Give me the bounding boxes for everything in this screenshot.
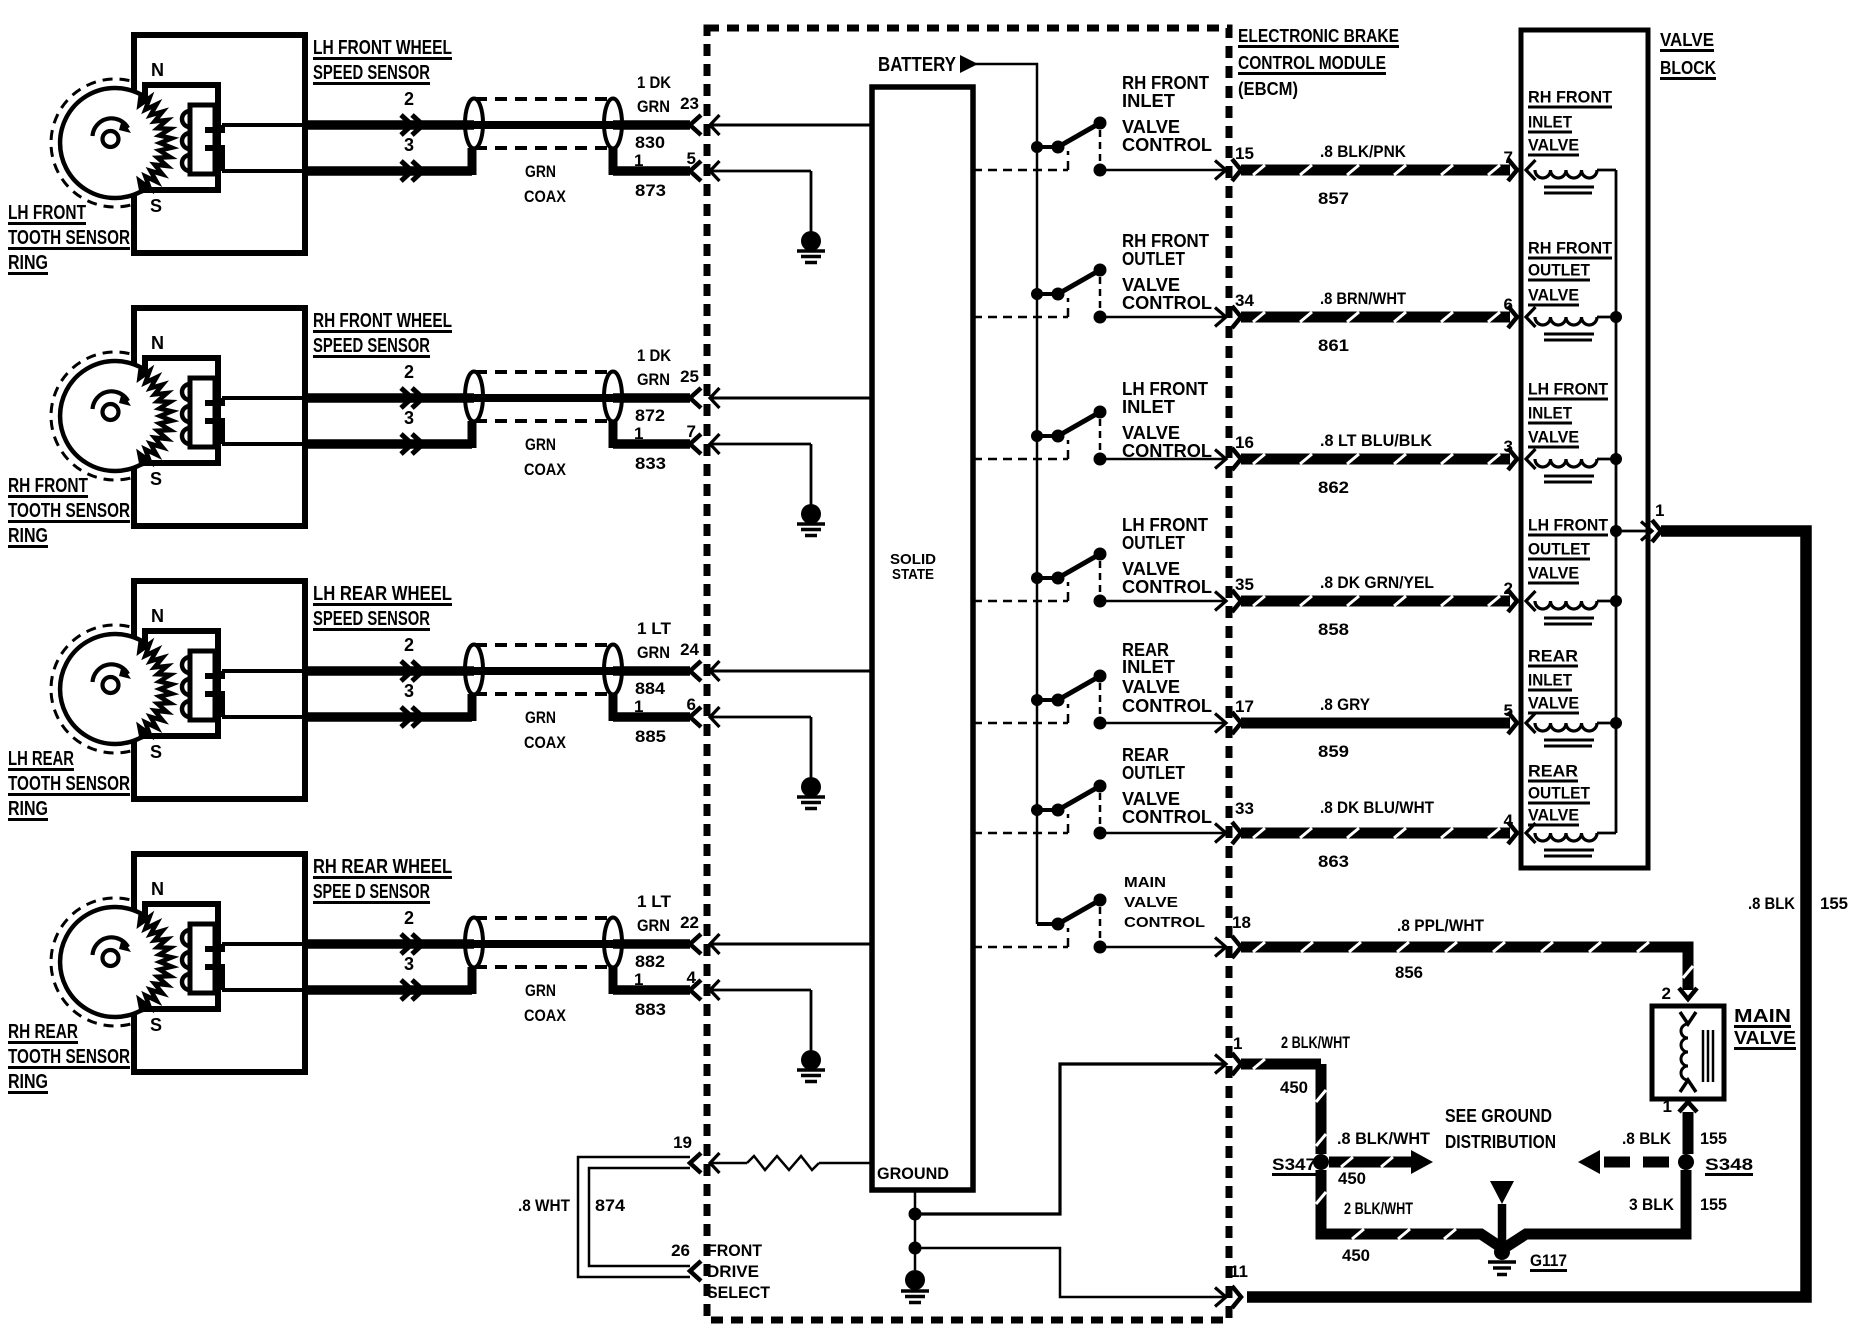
svg-text:VALVE: VALVE [1122,559,1180,579]
sensor title label [313,583,452,631]
svg-text:22: 22 [680,913,699,932]
switch: LH FRONT INLET VALVE CONTROL [1031,406,1107,466]
svg-text:LH FRONT: LH FRONT [8,202,86,224]
svg-text:CONTROL: CONTROL [1122,807,1212,827]
valve label LH FRONT OUTLET VALVE VALVE [1528,516,1609,585]
valve coil: RH FRONT OUTLET VALVE VALVE (pin 6) [1526,307,1616,340]
connector valve pin 7 [1508,159,1517,181]
svg-text:S: S [150,196,162,216]
connector pin 22 at EBCM [690,934,720,954]
coax shield [465,372,622,422]
valve coil: LH FRONT INLET VALVE VALVE (pin 3) [1526,449,1616,482]
ground symbol (row 3) [797,777,825,809]
pin label 2 (main valve) [1662,984,1671,1003]
sensor title label [313,37,452,85]
valve block label [1660,30,1716,80]
circuit label 856 [1395,963,1423,982]
bus junction at y=459 [1610,453,1622,465]
svg-text:OUTLET: OUTLET [1528,261,1591,280]
svg-text:26: 26 [671,1241,690,1260]
svg-text:VALVE: VALVE [1122,117,1180,137]
wire: sensor RH REAR WHEEL signal (882) [222,942,690,946]
svg-text:VALVE: VALVE [1122,275,1180,295]
connector pin 7 at EBCM [690,434,720,454]
battery label and feed wire [878,54,1037,924]
svg-text:CONTROL: CONTROL [1124,914,1205,931]
wire labels 2 BLK/WHT 450 [1280,1033,1413,1265]
svg-text:2 BLK/WHT: 2 BLK/WHT [1344,1199,1413,1218]
junction node A [909,1208,922,1221]
svg-text:17: 17 [1235,697,1254,716]
dashed control line from solid state (row 1) [973,151,1068,170]
bus junction at y=723 [1610,717,1622,729]
pin label 26 [671,1241,690,1260]
valve pin label 5 [1504,701,1513,720]
svg-text:.8 LT BLU/BLK: .8 LT BLU/BLK [1320,431,1433,450]
svg-text:RING: RING [8,525,48,547]
tooth ring label [8,748,130,821]
svg-text:DRIVE: DRIVE [707,1262,759,1281]
valve label RH FRONT OUTLET VALVE VALVE [1528,239,1613,307]
main valve label [1734,1006,1796,1050]
svg-text:LH REAR: LH REAR [8,748,74,770]
svg-text:N: N [151,333,164,353]
svg-text:4: 4 [687,968,697,987]
svg-text:450: 450 [1280,1078,1308,1097]
wire .8 BLK 155 (main valve to S348) [1683,1112,1694,1154]
svg-text:COAX: COAX [524,733,567,752]
wire label .8 WHT 874 [518,1196,626,1215]
svg-text:LH FRONT: LH FRONT [1122,515,1208,535]
ground symbol below solid state [901,1270,929,1303]
svg-text:.8 BLK/PNK: .8 BLK/PNK [1320,142,1407,161]
svg-text:873: 873 [635,181,666,200]
svg-text:2: 2 [1662,984,1671,1003]
svg-text:863: 863 [1318,852,1349,871]
svg-text:874: 874 [595,1196,626,1215]
wire: sensor LH REAR WHEEL return (885) [222,694,690,721]
wire terminal numbers 2 / 3 [404,362,414,428]
svg-text:3: 3 [404,954,414,974]
svg-text:RH FRONT: RH FRONT [1122,231,1209,251]
switch: RH FRONT OUTLET VALVE CONTROL [1031,264,1107,324]
svg-text:872: 872 [635,406,665,425]
connector pin 34 [1215,306,1241,328]
connector pin 6 at EBCM [690,707,720,727]
pin label 1 [1233,1034,1242,1053]
wire label .8 BLK/WHT 450 [1337,1129,1431,1188]
rh rear wheel speed sensor assembly [51,854,305,1072]
svg-text:VALVE: VALVE [1122,789,1180,809]
svg-text:BLOCK: BLOCK [1660,58,1716,78]
inline connector pair on return wire [401,161,423,181]
EBCM pin number labels [680,640,699,714]
svg-text:CONTROL: CONTROL [1122,696,1212,716]
switch: RH FRONT INLET VALVE CONTROL [1031,117,1107,177]
switch: MAIN VALVE CONTROL [1037,894,1107,954]
svg-text:VALVE: VALVE [1660,30,1714,50]
wire label .8 BRN/WHT [1320,289,1407,308]
dashed control line from solid state (row 3) [973,440,1068,459]
lh front wheel speed sensor assembly [51,35,305,253]
svg-text:GRN: GRN [637,370,670,389]
dashed control line from solid state (row 2) [973,298,1068,317]
wire color / circuit labels [524,619,672,752]
pin label 18 [1232,913,1251,932]
wire .8 BLK/PNK 857 [1241,165,1510,175]
inline connector pair on return wire [401,707,423,727]
bus junction at y=317 [1610,311,1622,323]
EBCM pin number labels [680,367,699,441]
coax shield [465,645,622,695]
svg-text:CONTROL: CONTROL [1122,135,1212,155]
svg-text:G117: G117 [1530,1251,1567,1270]
valve coil: RH FRONT INLET VALVE VALVE (pin 7) [1526,160,1616,193]
switch: REAR INLET VALVE CONTROL [1031,670,1107,730]
tooth ring label [8,475,130,548]
svg-text:CONTROL: CONTROL [1122,577,1212,597]
wire 3 BLK 155 (S348 to ground) [1506,1170,1686,1247]
svg-text:1 DK: 1 DK [637,346,672,365]
svg-text:OUTLET: OUTLET [1122,763,1185,783]
svg-text:34: 34 [1235,291,1254,310]
circuit label 859 [1318,742,1349,761]
wire label .8 DK BLU/WHT [1320,798,1435,817]
wire color / circuit labels [524,73,672,206]
control label LH FRONT OUTLET VALVE CONTROL [1122,515,1212,597]
svg-text:BATTERY: BATTERY [878,54,957,76]
svg-text:155: 155 [1820,894,1848,913]
wire label 3 BLK 155 [1629,1195,1727,1214]
wire label .8 BLK/PNK [1320,142,1407,161]
main valve box [1652,1006,1724,1099]
svg-text:RH REAR WHEEL: RH REAR WHEEL [313,856,452,878]
svg-text:1 LT: 1 LT [637,619,672,638]
svg-text:LH REAR WHEEL: LH REAR WHEEL [313,583,452,605]
svg-text:MAIN: MAIN [1124,874,1166,891]
connector pin 17 [1215,712,1241,734]
svg-text:REAR: REAR [1528,647,1578,666]
svg-text:GRN: GRN [637,643,670,662]
control label RH FRONT OUTLET VALVE CONTROL [1122,231,1212,313]
svg-text:25: 25 [680,367,699,386]
label S347 [1272,1155,1316,1176]
svg-text:3: 3 [404,408,414,428]
svg-text:2: 2 [404,635,414,655]
svg-text:OUTLET: OUTLET [1122,533,1185,553]
svg-text:SPEE D SENSOR: SPEE D SENSOR [313,881,430,903]
svg-text:RING: RING [8,252,48,274]
connector pin 15 [1215,159,1241,181]
valve block internal bus wire [1615,170,1618,833]
svg-text:CONTROL: CONTROL [1122,441,1212,461]
svg-text:N: N [151,60,164,80]
svg-text:1: 1 [1655,501,1664,520]
svg-text:.8 GRY: .8 GRY [1320,695,1371,714]
svg-text:884: 884 [635,679,666,698]
svg-text:RH FRONT: RH FRONT [8,475,88,497]
svg-text:RING: RING [8,798,48,820]
pin label 33 [1235,799,1254,818]
pin label 16 [1235,433,1254,452]
wire color / circuit labels [524,892,672,1025]
svg-text:REAR: REAR [1122,745,1169,765]
svg-text:VALVE: VALVE [1124,894,1178,911]
lh rear wheel speed sensor assembly [51,581,305,799]
svg-text:MAIN: MAIN [1734,1006,1791,1026]
svg-text:VALVE: VALVE [1122,677,1180,697]
sensor title label [313,310,452,358]
valve pin label 4 [1504,811,1514,830]
svg-text:862: 862 [1318,478,1349,497]
svg-text:857: 857 [1318,189,1349,208]
EBCM title label [1238,26,1399,99]
wire label .8 BLK 155 [1622,1129,1727,1148]
label SEE GROUND DISTRIBUTION [1445,1106,1556,1152]
connector pin 4 at EBCM [690,980,720,1000]
svg-text:VALVE: VALVE [1528,806,1579,825]
inline connector pair on return wire [401,434,423,454]
svg-text:VALVE: VALVE [1528,286,1579,305]
svg-text:RH FRONT: RH FRONT [1122,73,1209,93]
svg-text:GRN: GRN [637,916,670,935]
svg-text:830: 830 [635,133,665,152]
dashed wire to S348 with arrow [1578,1150,1678,1174]
connector valve block pin 1 [1641,520,1661,542]
svg-text:.8 BLK/WHT: .8 BLK/WHT [1337,1129,1431,1148]
svg-text:CONTROL: CONTROL [1122,293,1212,313]
wire .8 GRY 859 [1241,718,1510,729]
svg-text:OUTLET: OUTLET [1528,784,1591,803]
dashed control line from solid state (row 4) [973,582,1068,601]
wire terminal numbers 2 / 3 [404,908,414,974]
svg-text:STATE: STATE [892,566,934,583]
svg-text:LH FRONT: LH FRONT [1122,379,1208,399]
coax shield [465,99,622,149]
ground symbol (row 2) [797,504,825,536]
EBCM pin number labels [680,94,699,168]
svg-text:VALVE: VALVE [1734,1028,1796,1048]
wire 874 jumper (pin 19 to 26) [578,1157,690,1277]
svg-text:5: 5 [687,149,696,168]
bus junction at y=601 [1610,595,1622,607]
wire: sensor LH FRONT WHEEL return (873) [222,148,690,175]
wire: switch output to pin 17 [1100,722,1226,725]
connector valve pin 3 [1508,448,1517,470]
svg-text:SPEED SENSOR: SPEED SENSOR [313,62,430,84]
svg-text:1: 1 [1663,1097,1672,1116]
valve pin label 6 [1504,295,1513,314]
svg-text:N: N [151,879,164,899]
valve label LH FRONT INLET VALVE VALVE [1528,380,1609,449]
circuit label 861 [1318,336,1349,355]
svg-text:GROUND: GROUND [877,1164,949,1183]
svg-text:SPEED SENSOR: SPEED SENSOR [313,608,430,630]
svg-text:24: 24 [680,640,699,659]
wire .8 BRN/WHT 861 [1241,312,1510,322]
svg-text:5: 5 [1504,701,1513,720]
svg-text:1 DK: 1 DK [637,73,672,92]
wire+ground: sensor shield return (row 1) [710,171,811,232]
wire+ground: sensor shield return (row 2) [710,444,811,505]
svg-text:450: 450 [1342,1246,1370,1265]
circuit label 858 [1318,620,1349,639]
connector pin 24 at EBCM [690,661,720,681]
wire label .8 LT BLU/BLK [1320,431,1433,450]
dashed control line from solid state (row 6) [973,814,1068,833]
svg-text:VALVE: VALVE [1528,694,1579,713]
connector valve pin 5 [1508,712,1517,734]
wire: sensor RH REAR WHEEL return (883) [222,967,690,994]
pin label 17 [1235,697,1254,716]
switch: REAR OUTLET VALVE CONTROL [1031,780,1107,840]
svg-text:SPEED SENSOR: SPEED SENSOR [313,335,430,357]
svg-text:S: S [150,742,162,762]
svg-text:2 BLK/WHT: 2 BLK/WHT [1281,1033,1350,1052]
wire terminal numbers 2 / 3 [404,635,414,701]
svg-text:856: 856 [1395,963,1423,982]
valve coil: LH FRONT OUTLET VALVE VALVE (pin 2) [1526,591,1616,624]
wire: sensor input to solid state (row 2) [710,397,872,400]
connector pin 16 [1215,448,1241,470]
connector pin 25 at EBCM [690,388,720,408]
svg-text:RH REAR: RH REAR [8,1021,78,1043]
valve coil: REAR OUTLET VALVE VALVE (pin 4) [1526,823,1616,856]
svg-text:23: 23 [680,94,699,113]
dashed control line from solid state (main valve) [973,928,1068,947]
svg-text:ELECTRONIC BRAKE: ELECTRONIC BRAKE [1238,26,1399,46]
connector pin 11 [1215,1286,1241,1308]
connector valve pin 4 [1508,822,1517,844]
svg-text:.8 DK BLU/WHT: .8 DK BLU/WHT [1320,798,1435,817]
wire label .8 PPL/WHT [1397,916,1485,935]
pin label 19 [673,1133,692,1152]
svg-text:6: 6 [687,695,696,714]
svg-text:7: 7 [1504,148,1513,167]
connector main valve pin 2 [1679,988,1697,999]
svg-text:GRN: GRN [525,162,556,181]
switch: LH FRONT OUTLET VALVE CONTROL [1031,548,1107,608]
wire+ground: sensor shield return (row 3) [710,717,811,778]
svg-text:FRONT: FRONT [707,1241,763,1260]
wire .8 BLK 155 right side [1247,531,1806,1297]
svg-text:VALVE: VALVE [1528,564,1579,583]
svg-text:18: 18 [1232,913,1251,932]
control label REAR OUTLET VALVE CONTROL [1122,745,1212,827]
svg-text:35: 35 [1235,575,1254,594]
dashed control line from solid state (row 5) [973,704,1068,723]
tooth ring label [8,202,130,275]
valve label REAR OUTLET VALVE VALVE [1528,762,1591,827]
svg-text:2: 2 [404,362,414,382]
wire: sensor RH FRONT WHEEL signal (872) [222,396,690,400]
svg-text:RH FRONT WHEEL: RH FRONT WHEEL [313,310,452,332]
valve label REAR INLET VALVE VALVE [1528,647,1579,715]
wire: valve block pin 1 output [1616,530,1648,533]
EBCM pin number labels [680,913,699,987]
wire: sensor LH FRONT WHEEL signal (830) [222,123,690,127]
connector pin 35 [1215,590,1241,612]
wire label .8 DK GRN/YEL [1320,573,1434,592]
svg-text:.8 PPL/WHT: .8 PPL/WHT [1397,916,1485,935]
svg-text:883: 883 [635,1000,666,1019]
wire .8 BLK/WHT 450 from S347 with arrow [1329,1150,1433,1174]
connector pin 23 at EBCM [690,115,720,135]
svg-text:REAR: REAR [1528,762,1578,781]
wire: sensor LH REAR WHEEL signal (884) [222,669,690,673]
svg-text:RING: RING [8,1071,48,1093]
control label LH FRONT INLET VALVE CONTROL [1122,379,1212,461]
svg-text:3: 3 [404,681,414,701]
svg-text:S: S [150,469,162,489]
svg-text:LH FRONT: LH FRONT [1528,516,1609,535]
svg-text:.8 BRN/WHT: .8 BRN/WHT [1320,289,1407,308]
wire: sensor input to solid state (row 1) [710,124,872,127]
svg-text:6: 6 [1504,295,1513,314]
svg-text:1: 1 [634,697,643,716]
inline connector pair on signal wire [401,115,423,135]
svg-text:GRN: GRN [525,435,556,454]
circuit label 857 [1318,189,1349,208]
svg-text:SELECT: SELECT [707,1283,771,1302]
valve pin label 3 [1504,437,1513,456]
wire: switch output to pin 15 [1100,169,1226,172]
pin label 34 [1235,291,1254,310]
sensor title label [313,856,452,904]
pin label 35 [1235,575,1254,594]
circuit label 863 [1318,852,1349,871]
svg-text:TOOTH SENSOR: TOOTH SENSOR [8,1046,130,1068]
connector valve pin 6 [1508,306,1517,328]
connector pin 5 at EBCM [690,161,720,181]
wire: switch output to pin 33 [1100,832,1226,835]
splice S348 [1678,1154,1694,1170]
svg-text:859: 859 [1318,742,1349,761]
control label RH FRONT INLET VALVE CONTROL [1122,73,1212,155]
svg-text:33: 33 [1235,799,1254,818]
svg-text:S347: S347 [1272,1155,1316,1174]
inline connector pair on signal wire [401,934,423,954]
wire: node B to pin 11 [915,1248,1226,1297]
connector pin 18 [1215,936,1241,958]
wire .8 DK GRN/YEL 858 [1241,596,1510,606]
pin label 15 [1235,144,1254,163]
svg-text:16: 16 [1235,433,1254,452]
svg-text:COAX: COAX [524,460,567,479]
svg-text:S348: S348 [1705,1155,1753,1174]
svg-text:3 BLK: 3 BLK [1629,1195,1675,1214]
rh front wheel speed sensor assembly [51,308,305,526]
svg-text:450: 450 [1338,1169,1366,1188]
svg-text:TOOTH SENSOR: TOOTH SENSOR [8,773,130,795]
svg-text:SEE GROUND: SEE GROUND [1445,1106,1552,1126]
inline connector pair on signal wire [401,661,423,681]
svg-text:LH FRONT: LH FRONT [1528,380,1609,399]
wire label .8 BLK 155 (right) [1748,894,1848,913]
svg-text:GRN: GRN [525,708,556,727]
svg-text:(EBCM): (EBCM) [1238,79,1298,99]
svg-text:VALVE: VALVE [1528,428,1579,447]
connector valve pin 2 [1508,590,1517,612]
valve pin label 7 [1504,148,1513,167]
label G117 [1530,1251,1567,1272]
svg-text:COAX: COAX [524,187,567,206]
svg-text:DISTRIBUTION: DISTRIBUTION [1445,1132,1556,1152]
svg-text:3: 3 [1504,437,1513,456]
svg-text:INLET: INLET [1122,91,1175,111]
svg-text:VALVE: VALVE [1528,136,1579,155]
svg-text:GRN: GRN [637,97,670,116]
